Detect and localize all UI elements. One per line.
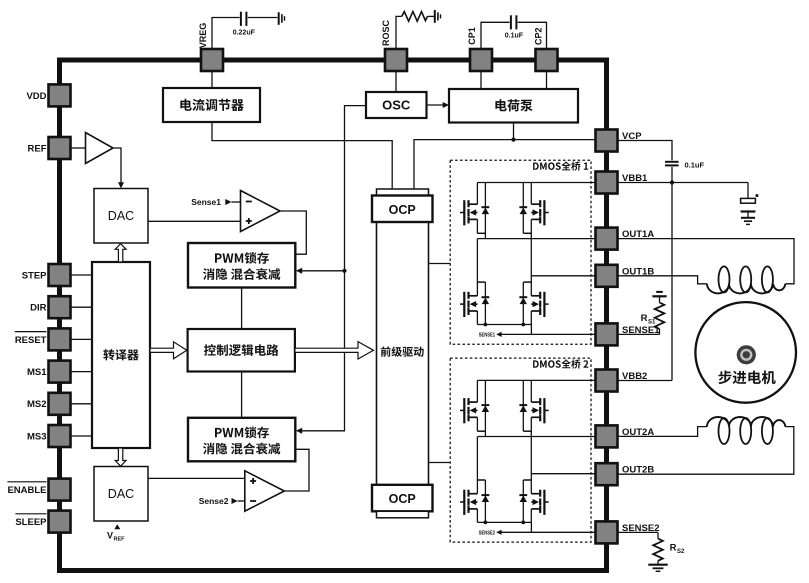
arrow Sense2 bbox=[232, 498, 245, 504]
transistor Q14 (low side right) bbox=[523, 282, 548, 324]
comparator U2 bbox=[241, 191, 281, 232]
label VREG bbox=[198, 23, 208, 49]
wire VBB2 bbox=[618, 380, 673, 382]
wire SENSE2 to RS2 bbox=[618, 532, 659, 538]
capacitor C3 0.1uF bbox=[665, 162, 679, 166]
svg-text:SENSE1: SENSE1 bbox=[622, 325, 660, 336]
junction charge pump-VCP bbox=[511, 138, 515, 142]
body diode D14 bbox=[519, 282, 527, 324]
DMOS bridge 1 dashed box bbox=[450, 160, 591, 344]
svg-text:MS2: MS2 bbox=[27, 399, 47, 410]
junction D14 source rail bbox=[521, 323, 525, 327]
wire MS3 to translator bbox=[71, 435, 93, 437]
label pin OUT1B bbox=[622, 266, 654, 277]
arrow into PWM1 bbox=[296, 268, 345, 274]
svg-text:CP2: CP2 bbox=[533, 27, 543, 45]
pin OUT1A bbox=[596, 228, 618, 250]
pin REF bbox=[49, 137, 71, 159]
label pin STEP bbox=[22, 270, 47, 281]
label pin VDD bbox=[26, 91, 46, 102]
label pin MS2 bbox=[27, 399, 47, 410]
capacitor C4 (bulk) bbox=[741, 183, 759, 218]
pin MS2 bbox=[49, 393, 71, 415]
pin VDD bbox=[49, 84, 71, 106]
block control logic bbox=[188, 329, 295, 372]
svg-text:0.22uF: 0.22uF bbox=[233, 30, 256, 37]
wire charge pump to VCP rail bbox=[414, 123, 596, 190]
arrow translator to DAC2 bbox=[115, 448, 126, 466]
wire source rail bridge 2 bbox=[477, 522, 531, 532]
resistor RS1 bbox=[655, 303, 665, 330]
wire pre-driver to bridge2 bbox=[429, 462, 450, 464]
label DMOS bridge 1 bbox=[533, 161, 588, 170]
pin MS1 bbox=[49, 361, 71, 383]
wire STEP to translator bbox=[71, 274, 93, 276]
block charge pump bbox=[449, 89, 578, 123]
wire DIR to translator bbox=[71, 306, 93, 308]
pin VCP bbox=[596, 130, 618, 152]
inductor L1 (winding 1) bbox=[707, 266, 785, 293]
block DAC2 bbox=[94, 467, 148, 522]
wire source rail bridge 1 bbox=[477, 325, 531, 335]
svg-text:OUT1B: OUT1B bbox=[622, 266, 654, 277]
junction D22 source rail bbox=[484, 521, 488, 525]
wire OUT1B to coil bbox=[618, 276, 708, 284]
label pin OUT2A bbox=[622, 427, 654, 438]
label pin RESET bbox=[15, 332, 47, 346]
pin DIR bbox=[49, 296, 71, 318]
wire CP2 pin to charge pump bbox=[546, 72, 548, 90]
wire pre-driver to bridge1 bbox=[429, 263, 451, 265]
svg-text:STEP: STEP bbox=[22, 270, 47, 281]
resistor RS2 bbox=[653, 539, 663, 561]
body diode D23 bbox=[519, 380, 527, 431]
svg-text:RESET: RESET bbox=[15, 335, 47, 346]
ground (VREG cap, rotated) bbox=[279, 12, 285, 25]
svg-text:OUT2A: OUT2A bbox=[622, 427, 654, 438]
wire DAC2 to comparator2 bbox=[148, 477, 245, 479]
svg-text:VBB2: VBB2 bbox=[622, 371, 647, 382]
op-amp buffer U1 bbox=[86, 133, 114, 164]
wire OUT1A to coil bbox=[618, 239, 795, 284]
block pre-driver column bbox=[377, 222, 429, 485]
wire current regulator to OCP bbox=[212, 122, 392, 190]
wire C2 to CP2 bbox=[518, 22, 547, 49]
pin VREG bbox=[201, 49, 223, 71]
label pin ENABLE bbox=[7, 482, 46, 496]
label CP2 bbox=[533, 27, 543, 45]
block PWM latch 2 bbox=[188, 418, 295, 462]
label pin VCP bbox=[622, 131, 642, 142]
wire C1 to ground bbox=[248, 17, 278, 19]
wire ROSC pin to OSC bbox=[395, 72, 397, 93]
wire RS1 to ground bbox=[659, 297, 661, 303]
label VREF bbox=[107, 531, 125, 543]
OCP bottom cap bbox=[377, 511, 429, 518]
svg-text:CP1: CP1 bbox=[467, 27, 477, 45]
transistor Q23 (high side right) bbox=[523, 380, 548, 493]
block DAC1 bbox=[94, 189, 148, 244]
transistor Q11 (high side left) bbox=[460, 183, 485, 234]
pin SENSE2 bbox=[596, 521, 618, 543]
svg-text:Sense1: Sense1 bbox=[191, 197, 221, 207]
svg-text:0.1uF: 0.1uF bbox=[505, 33, 524, 40]
svg-text:DIR: DIR bbox=[30, 303, 47, 314]
svg-text:SENSE2: SENSE2 bbox=[622, 523, 660, 534]
label CP1 bbox=[467, 27, 477, 45]
svg-text:SENSE2: SENSE2 bbox=[479, 531, 495, 537]
label pin REF bbox=[28, 143, 47, 154]
label SENSE2 internal bbox=[479, 531, 495, 537]
label Sense2 bbox=[199, 496, 229, 506]
arrow translator to control logic bbox=[150, 342, 187, 359]
wire VBB rail bridge 2 bbox=[477, 379, 595, 381]
label pin MS3 bbox=[27, 431, 47, 442]
label pin OUT2B bbox=[622, 465, 654, 476]
ground (ROSC, rotated) bbox=[435, 10, 441, 23]
arrow OSC to charge pump bbox=[427, 102, 450, 108]
pin OUT1B bbox=[596, 265, 618, 287]
pin CP1 bbox=[470, 49, 492, 71]
transistor Q24 (low side right) bbox=[523, 480, 548, 522]
ground (RS2) bbox=[648, 565, 667, 572]
wire OUT1B rail bbox=[531, 275, 595, 277]
svg-text:REF: REF bbox=[114, 537, 126, 543]
body diode D12 bbox=[482, 282, 490, 324]
svg-text:OSC: OSC bbox=[382, 98, 411, 113]
wire RS2 to ground bbox=[657, 561, 659, 565]
label pre-driver bbox=[381, 346, 424, 356]
svg-text:DAC: DAC bbox=[108, 487, 134, 501]
wire R1 to ground bbox=[428, 15, 435, 17]
svg-text:MS1: MS1 bbox=[27, 367, 47, 378]
inductor L2 (winding 2) bbox=[707, 417, 785, 444]
pin OUT2A bbox=[596, 425, 618, 447]
svg-text:ROSC: ROSC bbox=[381, 20, 391, 47]
wire MS1 to translator bbox=[71, 371, 93, 373]
block current regulator bbox=[163, 88, 260, 122]
label SENSE1 internal bbox=[479, 333, 495, 339]
label 0.1uF (C3) bbox=[685, 161, 705, 170]
svg-text:Sense2: Sense2 bbox=[199, 496, 229, 506]
label pin VBB1 bbox=[622, 173, 648, 184]
body diode D21 bbox=[482, 380, 490, 436]
capacitor C1 0.22uF bbox=[241, 12, 247, 26]
wire MS2 to translator bbox=[71, 403, 93, 405]
ground (C4) bbox=[741, 218, 755, 225]
DMOS bridge 2 dashed box bbox=[450, 358, 591, 542]
body diode D22 bbox=[482, 480, 490, 522]
junction D12 source rail bbox=[484, 323, 488, 327]
svg-text:DAC: DAC bbox=[108, 209, 134, 223]
svg-text:OUT1A: OUT1A bbox=[622, 229, 654, 240]
svg-text:SLEEP: SLEEP bbox=[15, 517, 47, 528]
stepper motor bbox=[695, 302, 796, 403]
ground (RS1, flipped) bbox=[652, 292, 666, 296]
block OCP top bbox=[372, 196, 433, 223]
transistor Q12 (low side left) bbox=[460, 239, 485, 325]
arrow translator to DAC1 bbox=[115, 244, 126, 262]
junction D24 source rail bbox=[521, 521, 525, 525]
label pin DIR bbox=[30, 303, 47, 314]
block OSC bbox=[366, 92, 427, 118]
wire VBB1 bbox=[618, 182, 749, 184]
wire OUT2B rail bbox=[531, 473, 595, 475]
wire CP1 to C2 bbox=[481, 22, 510, 49]
arrow buffer to DAC1 bbox=[113, 148, 124, 189]
pin STEP bbox=[49, 264, 71, 286]
wire coil to OUT2B bbox=[618, 427, 794, 475]
label pin VBB2 bbox=[622, 371, 647, 382]
pin RESET bbox=[49, 328, 71, 350]
block translator bbox=[92, 262, 150, 448]
label RS2 bbox=[670, 543, 685, 556]
resistor R1 (ROSC) bbox=[402, 12, 428, 22]
svg-text:R: R bbox=[641, 313, 648, 324]
wire VREG to C1 bbox=[212, 18, 240, 50]
pin OUT2B bbox=[596, 463, 618, 485]
wire OUT2A to coil bbox=[618, 427, 708, 437]
wire VCP to C3 bbox=[618, 141, 673, 161]
IC package outline bbox=[60, 60, 607, 571]
block OCP bottom bbox=[372, 485, 433, 512]
pin ENABLE bbox=[49, 479, 71, 501]
label pin SENSE1 bbox=[622, 325, 660, 336]
pin ROSC bbox=[385, 49, 407, 71]
wire CP1 pin to charge pump bbox=[480, 72, 482, 90]
svg-text:REF: REF bbox=[28, 143, 47, 154]
wire SENSE2 internal bbox=[496, 530, 595, 535]
OCP top cap bbox=[377, 189, 429, 196]
wire SENSE1 to RS1 bbox=[618, 329, 660, 334]
wire VBB rail bridge 1 bbox=[477, 182, 595, 184]
comparator U3 bbox=[245, 471, 284, 511]
label 0.22uF bbox=[233, 30, 256, 37]
label RS1 bbox=[641, 313, 656, 326]
svg-text:OCP: OCP bbox=[389, 203, 416, 217]
wire C3 to VBB net bbox=[671, 167, 673, 183]
body diode D11 bbox=[482, 183, 490, 239]
label pin MS1 bbox=[27, 367, 47, 378]
transistor Q21 (high side left) bbox=[460, 380, 485, 431]
label pin OUT1A bbox=[622, 229, 654, 240]
junction VBB1-C3 bbox=[670, 180, 674, 184]
svg-text:VDD: VDD bbox=[26, 91, 46, 102]
svg-text:R: R bbox=[670, 543, 677, 554]
label stepper motor bbox=[719, 371, 776, 385]
arrow Sense1 bbox=[225, 199, 240, 205]
transistor Q13 (high side right) bbox=[523, 183, 548, 296]
svg-text:VREG: VREG bbox=[198, 23, 208, 49]
svg-text:V: V bbox=[107, 531, 113, 541]
label ROSC bbox=[381, 20, 391, 47]
wire OSC to PWM latches bbox=[296, 106, 366, 434]
wire OUT1A rail bbox=[477, 238, 595, 240]
pin SENSE1 bbox=[596, 323, 618, 345]
wire control logic to PWM2 bbox=[241, 372, 243, 418]
body diode D24 bbox=[519, 480, 527, 522]
svg-text:0.1uF: 0.1uF bbox=[685, 161, 705, 170]
label 0.1uF (C2) bbox=[505, 33, 524, 40]
wire comparator2 to PWM2 bbox=[284, 449, 309, 491]
label Sense1 bbox=[191, 197, 221, 207]
wire OUT2A rail bbox=[477, 436, 595, 438]
wire ROSC to R1 bbox=[396, 16, 402, 49]
wire comparator1 to PWM1 bbox=[280, 211, 306, 254]
wire SENSE1 internal bbox=[496, 332, 595, 337]
label DMOS bridge 2 bbox=[533, 359, 588, 368]
block PWM latch 1 bbox=[188, 243, 295, 288]
svg-text:S2: S2 bbox=[677, 549, 685, 555]
pin CP2 bbox=[536, 49, 558, 71]
label VREF arrow bbox=[114, 524, 120, 529]
svg-text:SENSE1: SENSE1 bbox=[479, 333, 495, 339]
wire RESET to translator bbox=[71, 338, 93, 340]
wire PWM1 to control logic bbox=[241, 288, 243, 330]
pin VBB1 bbox=[596, 172, 618, 194]
svg-text:OCP: OCP bbox=[389, 492, 416, 506]
junction OSC line to PWM1 bbox=[342, 269, 346, 273]
body diode D13 bbox=[519, 183, 527, 234]
svg-text:MS3: MS3 bbox=[27, 431, 47, 442]
wire VBB1 to VBB2 tie bbox=[671, 183, 673, 381]
transistor Q22 (low side left) bbox=[460, 437, 485, 523]
label pin SENSE2 bbox=[622, 523, 660, 534]
svg-text:VBB1: VBB1 bbox=[622, 173, 648, 184]
svg-text:VCP: VCP bbox=[622, 131, 642, 142]
label pin SLEEP bbox=[15, 514, 47, 528]
wire REF pin to buffer bbox=[71, 147, 86, 149]
svg-text:ENABLE: ENABLE bbox=[7, 485, 46, 496]
svg-text:OUT2B: OUT2B bbox=[622, 465, 654, 476]
capacitor C2 0.1uF bbox=[511, 15, 517, 29]
arrow control logic to pre-driver bbox=[295, 342, 374, 359]
wire DAC1 to comparator1 bbox=[148, 220, 241, 222]
pin VBB2 bbox=[596, 370, 618, 392]
wire VREG pin to current regulator bbox=[211, 72, 213, 89]
pin MS3 bbox=[49, 425, 71, 447]
pin SLEEP bbox=[49, 511, 71, 533]
